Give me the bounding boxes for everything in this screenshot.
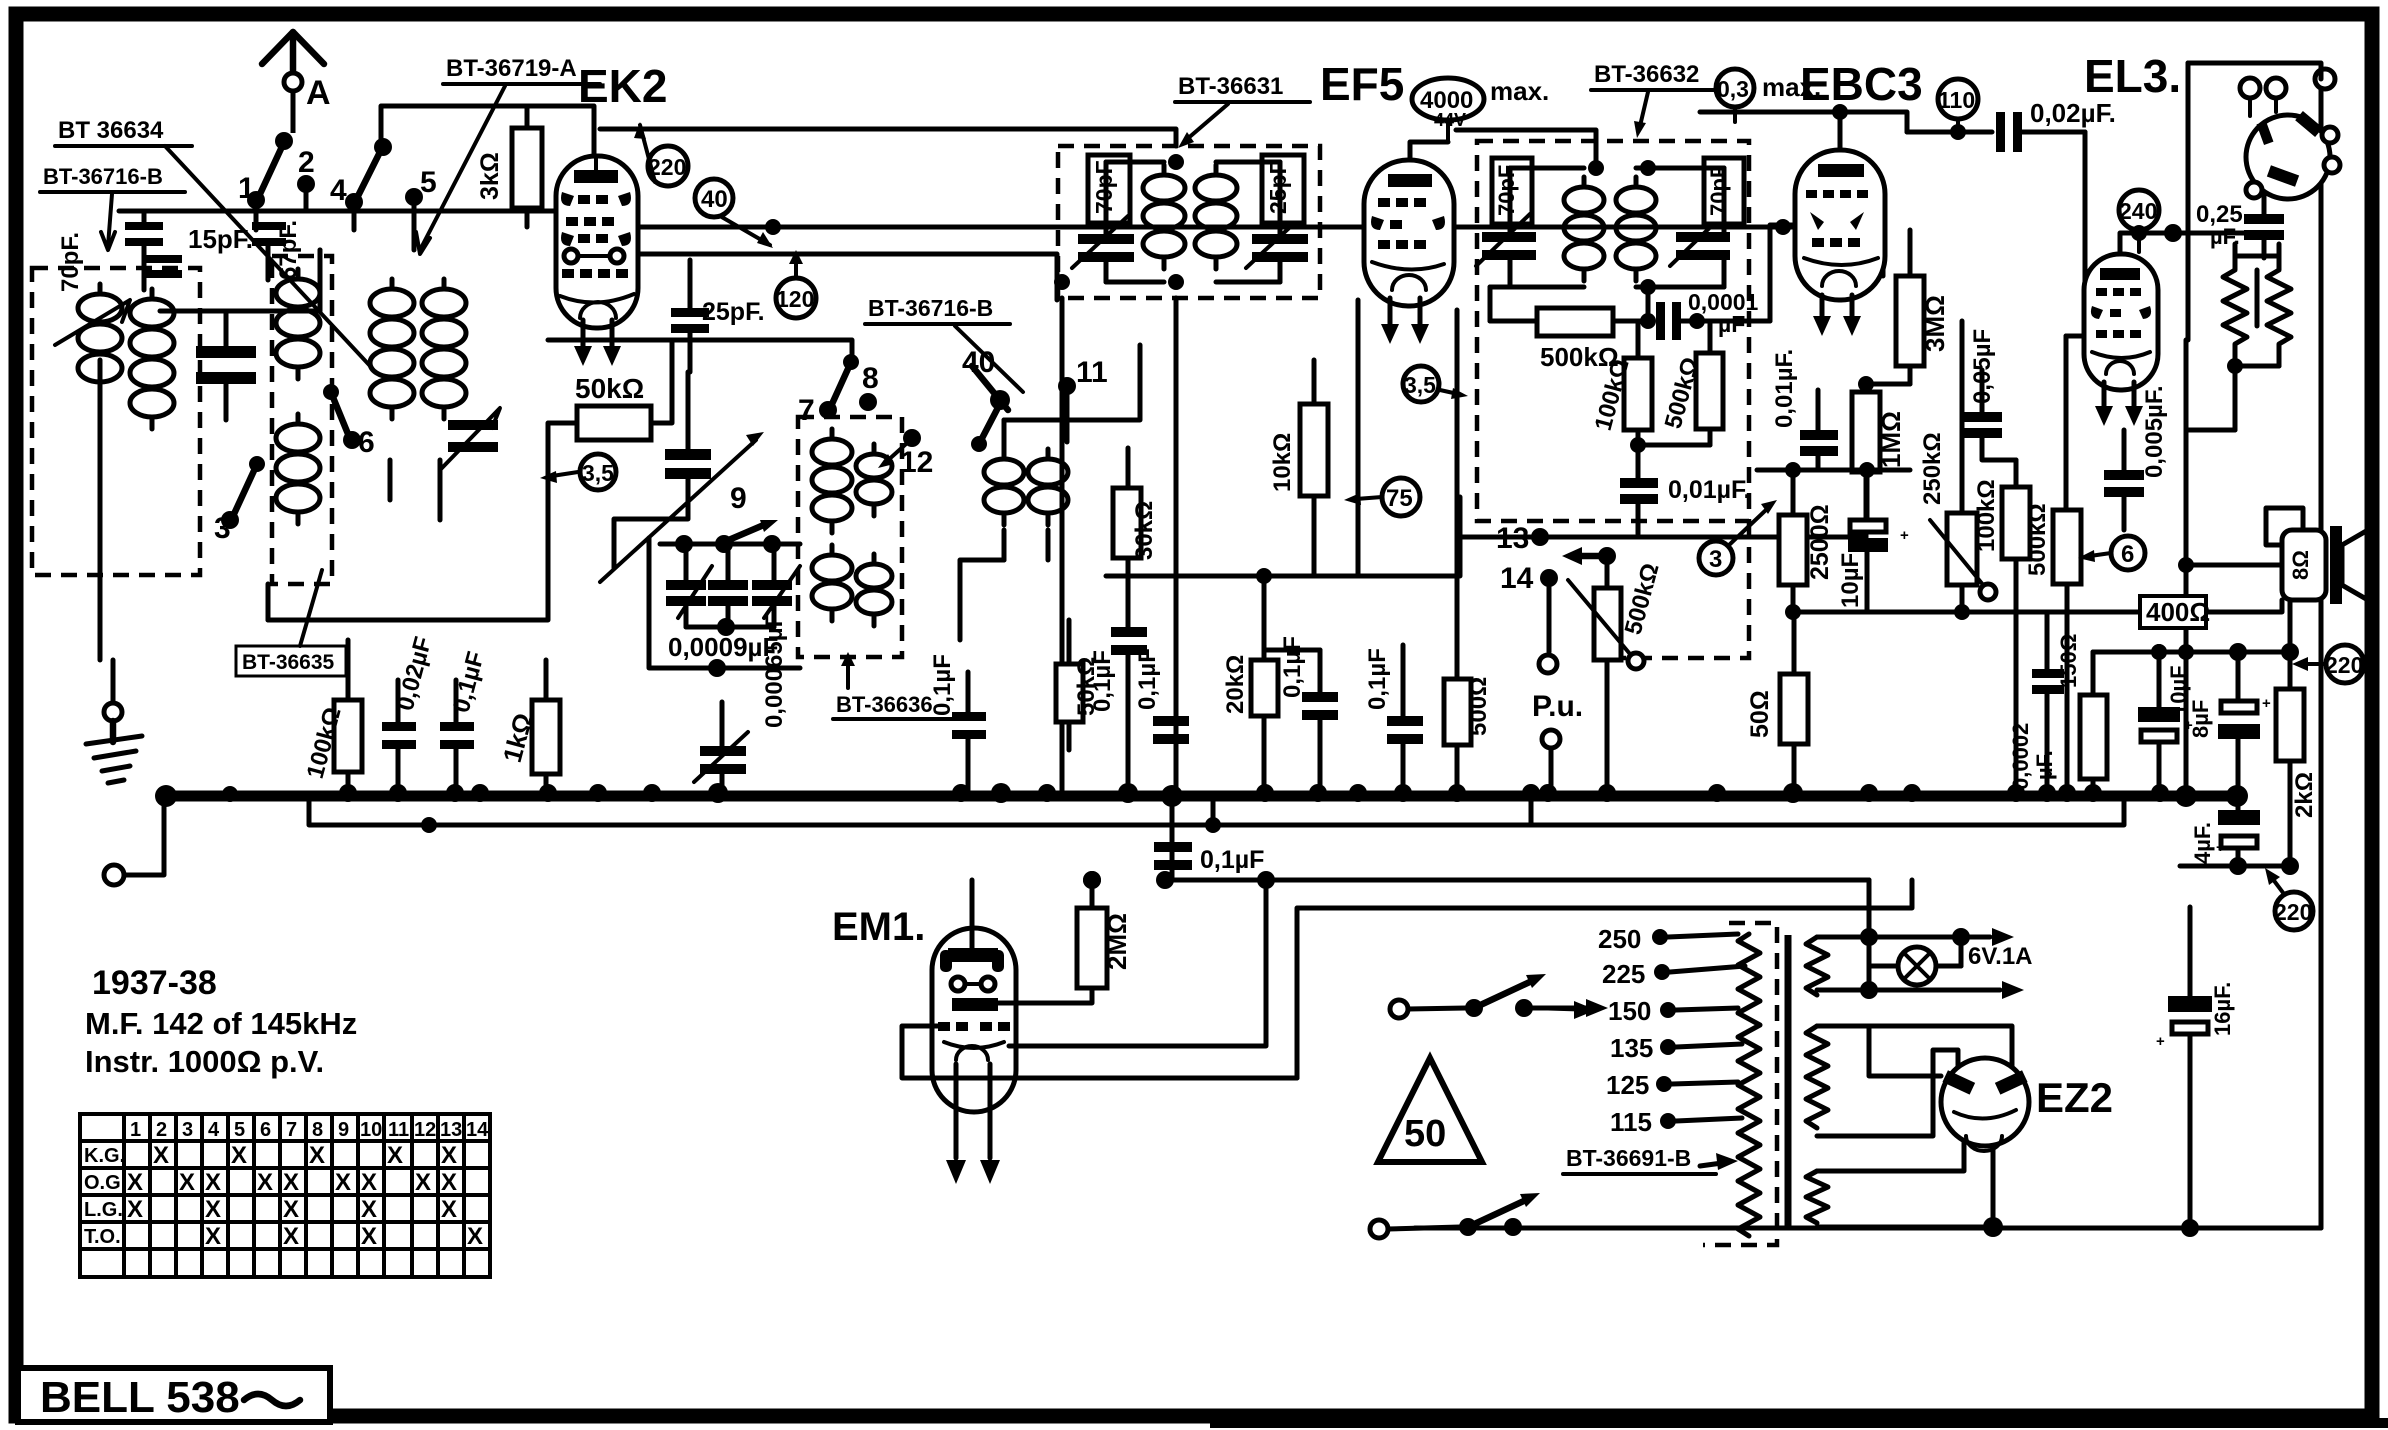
svg-text:EL3.: EL3. (2084, 50, 2181, 102)
mains tap 225 (1602, 959, 1745, 989)
switch contact 6 (323, 384, 375, 459)
trimmer capacitor osc bank 2 (708, 544, 748, 627)
svg-text:15pF.: 15pF. (188, 224, 253, 254)
capacitor 10uF cathode1 (1837, 462, 1909, 612)
wire: feedback line y652 (2093, 650, 2290, 655)
svg-text:2kΩ: 2kΩ (2291, 772, 2318, 818)
transformer core bar (1785, 935, 1792, 1230)
trimmer capacitor IF2 right (1670, 214, 1730, 266)
svg-text:3,5: 3,5 (1404, 372, 1436, 398)
BELL 538 box (18, 1368, 330, 1422)
tube EL3 anode (2100, 268, 2140, 280)
wire: output 400ohm line left (1793, 610, 2138, 615)
wire: S1 bottom heater line (1817, 937, 2024, 999)
svg-text:0,1µF: 0,1µF (1089, 650, 1116, 712)
svg-text:X: X (205, 1169, 221, 1196)
wire: AVC vertical (1211, 796, 1216, 825)
tube EBC3 filament arrows (1813, 295, 1861, 336)
tube EL3 cathode (2092, 352, 2150, 374)
band switch table (80, 1114, 490, 1277)
capacitor 16uF (2156, 907, 2235, 1237)
node A terminal (284, 73, 302, 91)
tube EM1 grid dashes (938, 1022, 1010, 1031)
P.u. terminals (1532, 655, 1583, 790)
svg-text:BT-36631: BT-36631 (1178, 73, 1283, 100)
wire: coil feed links (960, 345, 1140, 640)
dashed box band coil (272, 256, 332, 584)
svg-text:12: 12 (900, 446, 933, 479)
svg-text:0,1µF: 0,1µF (1279, 636, 1306, 698)
svg-text:X: X (153, 1142, 169, 1169)
mains tap 115 (1610, 1107, 1742, 1137)
svg-text:240: 240 (2119, 198, 2157, 224)
svg-text:BELL 538: BELL 538 (40, 1373, 240, 1422)
svg-text:10kΩ: 10kΩ (1269, 433, 1296, 492)
trimmer capacitor 0,00065uF (694, 613, 788, 793)
capacitor 0,1uF E (1364, 645, 1423, 793)
label BT-36636 (833, 652, 962, 719)
potentiometer 500k volume (1568, 560, 1665, 793)
svg-text:3: 3 (1709, 546, 1722, 573)
svg-text:L.G.: L.G. (84, 1199, 123, 1221)
coil OSC2 (856, 444, 892, 516)
antenna symbol (262, 32, 324, 133)
svg-text:20kΩ: 20kΩ (1222, 655, 1249, 714)
svg-text:250: 250 (1598, 924, 1641, 954)
trimmer capacitor IF1 right (1246, 216, 1308, 268)
coil OSC3 (812, 545, 852, 621)
svg-text:75: 75 (1386, 485, 1413, 512)
svg-text:0,005µF.: 0,005µF. (2141, 385, 2168, 478)
ground symbol (86, 721, 142, 783)
coil L2b (276, 414, 320, 524)
transformer secondary S3 (1806, 1171, 1828, 1223)
capacitor 0,1uF left (440, 649, 490, 793)
wire: S1 top to dial lamps (1817, 928, 2014, 946)
svg-text:135: 135 (1610, 1033, 1653, 1063)
resistor 1M (1852, 376, 1910, 537)
svg-text:T.O.: T.O. (84, 1226, 121, 1248)
wire: EM1 loop return line (1297, 880, 1912, 1078)
mains tap 135 (1610, 1033, 1742, 1063)
svg-text:1MΩ: 1MΩ (1876, 411, 1906, 468)
trimmer capacitor IF1 left (1072, 216, 1134, 268)
svg-text:50: 50 (1404, 1113, 1446, 1155)
svg-text:X: X (283, 1196, 299, 1223)
svg-text:BT-36719-A: BT-36719-A (446, 55, 577, 82)
svg-text:220: 220 (2325, 652, 2363, 678)
trimmer capacitor osc pad (440, 408, 500, 470)
wire: HT line below bus (309, 798, 2124, 825)
svg-text:X: X (127, 1196, 143, 1223)
triangle 50 Hz (1378, 1058, 1482, 1162)
dashed box IF1 transformer (1058, 146, 1320, 298)
resistor 20k (1222, 568, 1278, 793)
svg-text:7: 7 (286, 1119, 297, 1141)
svg-text:9: 9 (338, 1119, 349, 1141)
node 7 (798, 354, 859, 427)
wire: EL3 cathode junction (2151, 557, 2194, 660)
svg-text:BT-36691-B: BT-36691-B (1566, 1145, 1691, 1171)
oval 4000 max (1412, 76, 1549, 142)
svg-text:EBC3: EBC3 (1800, 58, 1923, 110)
svg-text:12: 12 (414, 1119, 436, 1141)
svg-text:µF: µF (1718, 311, 1745, 337)
wire: EF5 anode top (1410, 142, 1448, 160)
svg-text:225: 225 (1602, 959, 1645, 989)
trimmer capacitor osc bank 1 (666, 544, 712, 627)
svg-text:40: 40 (701, 186, 728, 213)
svg-text:X: X (335, 1169, 351, 1196)
svg-text:3MΩ: 3MΩ (1920, 295, 1950, 352)
tube EF5 anode (1388, 174, 1432, 187)
tube EK2 cathode (560, 294, 634, 318)
tube EBC3 cathode (1804, 258, 1878, 286)
svg-text:8Ω: 8Ω (2288, 550, 2313, 580)
wire: IF1 primary return (1174, 298, 1179, 796)
svg-text:1: 1 (238, 172, 255, 205)
svg-text:500Ω: 500Ω (1465, 677, 1492, 736)
resistor 1k cathode (497, 660, 560, 793)
wire: trimmer bank frame (649, 538, 800, 677)
svg-text:100kΩ: 100kΩ (1973, 479, 2000, 552)
wire: EM1 heater drop (1869, 1026, 1941, 1076)
svg-text:500kΩ: 500kΩ (2024, 503, 2051, 576)
trimmer frame 70pF IF1 (1088, 155, 1130, 223)
transformer primary winding (1738, 934, 1760, 1236)
svg-text:0,01µF.: 0,01µF. (1771, 349, 1798, 428)
circled 3,5 EK2 (540, 454, 616, 490)
svg-text:6: 6 (2121, 541, 2134, 568)
dashed box oscillator coil BT-36636 (798, 417, 902, 657)
mains tap 125 (1606, 1070, 1738, 1100)
svg-text:X: X (441, 1196, 457, 1223)
svg-text:X: X (441, 1169, 457, 1196)
junction dots EM1 (1083, 871, 1275, 889)
capacitor 0,01uF EBC3 grid (1771, 349, 1838, 470)
wire: EM1 loop outer (1009, 880, 1266, 1046)
svg-text:X: X (283, 1223, 299, 1250)
circled 120 (776, 250, 816, 318)
capacitor 4uF (2190, 799, 2260, 875)
wire: S3 filament to EZ2 cathode (1817, 1142, 1993, 1227)
trimmer capacitor padder (600, 372, 764, 582)
svg-text:EZ2: EZ2 (2036, 1074, 2113, 1121)
svg-text:5: 5 (420, 166, 437, 199)
label BT-36691-B (1563, 1145, 1738, 1174)
table X marks OG (127, 1169, 457, 1196)
tube EM1 cathode (944, 1042, 1004, 1060)
wire: hum network (2186, 244, 2279, 430)
svg-text:X: X (467, 1223, 483, 1250)
svg-text:44V: 44V (1434, 110, 1466, 130)
svg-text:2: 2 (298, 146, 315, 179)
coil IF-feed a (984, 449, 1024, 525)
svg-text:14: 14 (1500, 562, 1534, 595)
svg-text:3: 3 (182, 1119, 193, 1141)
svg-text:125: 125 (1606, 1070, 1649, 1100)
label BT-36719-A (416, 55, 600, 254)
label BT-36632 (1591, 61, 1726, 138)
wire: oscillator line (660, 542, 800, 547)
capacitor 0,1uF below bus (1154, 842, 1264, 874)
capacitor 0,25uF (2196, 190, 2284, 258)
svg-text:+: + (2262, 695, 2271, 712)
svg-text:6: 6 (260, 1119, 271, 1141)
svg-text:7: 7 (798, 394, 815, 427)
svg-text:X: X (205, 1196, 221, 1223)
ground bus (162, 791, 2237, 802)
capacitor 0,005uF EL3 (2104, 385, 2168, 530)
svg-text:50kΩ: 50kΩ (575, 373, 644, 404)
svg-text:8µF: 8µF (2188, 700, 2213, 738)
capacitor 0,05uF (1964, 329, 2016, 460)
wire: lamp feed vertical (1867, 880, 1872, 937)
svg-text:K.G.: K.G. (84, 1145, 125, 1167)
tube EK2 grids (561, 192, 631, 246)
wire: right edge vertical (2319, 79, 2324, 1228)
svg-text:8: 8 (312, 1119, 323, 1141)
resistor 10k (1269, 360, 1328, 576)
circled 6 (2078, 536, 2145, 570)
resistor 50ohm (1746, 612, 1808, 793)
trimmer capacitor IF2 left (1476, 214, 1536, 266)
tube EM1 plate bar (952, 998, 998, 1011)
resistor 100k det (1590, 321, 1652, 445)
tube EM1 target (940, 948, 1004, 972)
coil OSC1 (812, 429, 852, 533)
mains switch bottom (1370, 1193, 1540, 1238)
node 14 (1500, 562, 1558, 652)
wire: chassis terminal to bus (124, 800, 164, 875)
svg-text:9: 9 (730, 482, 747, 515)
trimmer frame 70pF IF2L (1492, 158, 1532, 224)
circled 240 (2119, 190, 2159, 252)
resistor 3M (1896, 230, 1950, 384)
transformer secondary S2 (1806, 1026, 1828, 1128)
svg-text:0,02µF.: 0,02µF. (2030, 98, 2116, 128)
svg-text:150: 150 (1608, 996, 1651, 1026)
svg-text:µF.: µF. (2032, 750, 2057, 780)
tube EZ2 cathode (1954, 1110, 2016, 1151)
resistor 2k (2276, 643, 2318, 875)
resistor 500ohm EF5 (1444, 310, 1492, 793)
tube EF5 grids (1371, 198, 1445, 249)
svg-text:115: 115 (1610, 1107, 1652, 1137)
svg-text:11: 11 (1076, 356, 1108, 389)
wire: S2 HV to EZ2 (1817, 1026, 2012, 1136)
svg-text:6V.1A: 6V.1A (1968, 943, 2033, 970)
chassis terminal (104, 865, 124, 885)
svg-text:50Ω: 50Ω (1746, 690, 1774, 738)
dashed box antenna coil BT-36634 (32, 268, 200, 575)
label BT-36635 (236, 570, 346, 676)
tube EL3 filament arrows (2095, 382, 2143, 426)
tube EM1 envelope (932, 928, 1016, 1112)
wire: connector leads (2188, 63, 2321, 340)
resistor zigzag hum left (2223, 258, 2247, 356)
wire: mains bottom line (1415, 1226, 2321, 1231)
dashed box IF2 detector (1477, 141, 1749, 658)
border bottom-right thick bar (1210, 1418, 2388, 1428)
wire: EK2 osc grid link (430, 470, 548, 620)
svg-text:25pF.: 25pF. (702, 298, 765, 326)
svg-text:0,3: 0,3 (1717, 76, 1749, 102)
svg-text:5: 5 (234, 1119, 245, 1141)
coil IF2 secondary (1616, 177, 1656, 281)
dial lamp (1869, 937, 1961, 985)
svg-text:0,1µF: 0,1µF (1364, 648, 1391, 710)
junction dots misc (421, 219, 1791, 889)
label BT-36631 (1175, 73, 1310, 148)
svg-text:+: + (2216, 839, 2225, 856)
capacitor 0,0001uF (1640, 289, 1770, 340)
wire: EBC3 anode top (1700, 104, 1907, 150)
wire: IF/AVC mid line (1106, 497, 1460, 576)
circled 0,3 max (1716, 69, 1821, 122)
resistor zigzag hum right (2267, 258, 2291, 356)
wire: IF2 secondary to detector (1490, 287, 1648, 321)
svg-text:3: 3 (214, 512, 231, 545)
circled 110 (1938, 79, 1978, 132)
capacitor 0,1uF D (1264, 636, 1338, 793)
tube EBC3 anode (1818, 164, 1864, 177)
circled 220 (634, 122, 688, 186)
tube EF5 envelope (1364, 160, 1454, 306)
svg-text:X: X (415, 1169, 431, 1196)
wire: bus to HT link (1529, 796, 1534, 825)
capacitor 0,01uF det (1620, 437, 1751, 534)
tube EK2 envelope (556, 156, 638, 328)
svg-text:4: 4 (330, 174, 347, 207)
node 11 (1058, 356, 1108, 442)
svg-text:EF5: EF5 (1320, 58, 1404, 110)
svg-text:Instr. 1000Ω p.V.: Instr. 1000Ω p.V. (85, 1044, 324, 1079)
wire: EL3 anode top (2120, 224, 2244, 254)
svg-text:0,01µF.: 0,01µF. (1668, 476, 1751, 504)
coil L1a (78, 284, 122, 394)
switch 40 contact (962, 346, 1010, 452)
tube EK2 filament arrows (574, 320, 621, 366)
svg-text:110: 110 (1938, 87, 1975, 113)
wire: EK2 grid4 line (622, 254, 1057, 300)
svg-text:BT-36636: BT-36636 (836, 692, 933, 717)
wire: coil returns to bus (100, 360, 440, 793)
circled 3,5 EF5 (1403, 366, 1468, 402)
resistor 2500ohm (1779, 462, 1834, 620)
transformer core dashed (1703, 923, 1777, 1245)
wire: left section link (160, 250, 320, 311)
svg-text:X: X (231, 1142, 247, 1169)
tube EBC3 diodes (1806, 190, 1868, 247)
svg-text:4µF.: 4µF. (2190, 822, 2215, 864)
svg-text:3kΩ: 3kΩ (476, 152, 504, 200)
wire: EL3 cathode vertical (2184, 340, 2189, 796)
resistor 500k det2 (1638, 321, 1723, 445)
svg-text:X: X (387, 1142, 403, 1169)
resistor 100k EL3 (1973, 460, 2030, 793)
tube EBC3 envelope (1795, 150, 1885, 300)
svg-text:0,1µF: 0,1µF (1134, 648, 1161, 710)
trimmer capacitor osc bank 3 (752, 544, 800, 627)
svg-text:A: A (306, 74, 331, 112)
capacitor 0,1uF A (1089, 627, 1147, 793)
resistor 3k EK2 anode (476, 106, 542, 227)
svg-text:X: X (441, 1142, 457, 1169)
label BT 36634 (55, 117, 372, 368)
capacitor plate between (2255, 270, 2260, 326)
coil L3b (422, 279, 466, 419)
tube EM1 deflector circles (951, 977, 995, 991)
wire: speaker field line (2186, 563, 2282, 568)
svg-text:16µF.: 16µF. (2210, 982, 2235, 1036)
coil IF1 primary (1143, 165, 1185, 269)
switch contact 2 (297, 146, 315, 193)
bus junction dots (155, 783, 2248, 807)
label BT-36716-B (40, 164, 185, 250)
svg-text:+: + (2156, 1033, 2165, 1050)
capacitor 67pF (252, 220, 302, 280)
switch contact 5 (405, 166, 437, 206)
svg-text:BT-36635: BT-36635 (242, 651, 335, 674)
boxed 400ohm (2140, 596, 2210, 628)
tube EK2 g-circle row (564, 249, 624, 263)
capacitor 25pF (671, 260, 765, 372)
wire: ground feed (111, 660, 116, 703)
svg-text:14: 14 (466, 1119, 489, 1141)
svg-text:X: X (205, 1223, 221, 1250)
svg-text:120: 120 (776, 286, 814, 312)
svg-text:BT 36634: BT 36634 (58, 117, 164, 144)
resistor 2M (998, 880, 1132, 1003)
svg-text:EK2: EK2 (578, 60, 667, 112)
svg-text:150Ω: 150Ω (2056, 634, 2081, 688)
svg-text:P.u.: P.u. (1532, 690, 1583, 723)
svg-text:70pF.: 70pF. (57, 232, 84, 292)
table X marks LG (127, 1196, 457, 1223)
svg-text:EM1.: EM1. (832, 905, 925, 949)
table row labels (84, 1145, 126, 1248)
oscillator switch 9 (675, 482, 781, 553)
svg-text:30kΩ: 30kΩ (1131, 501, 1158, 560)
wire: screen supply line (640, 227, 1883, 276)
svg-text:X: X (361, 1223, 377, 1250)
resistor 50k osc grid (1056, 620, 1100, 750)
wire: EM1 grid cap top (970, 880, 975, 948)
circled 3 (1699, 500, 1777, 575)
wire: EK2 anode to IF1 primary (600, 129, 1176, 146)
wire: EF5 cathode left (1356, 300, 1361, 576)
resistor 150ohm (2056, 634, 2107, 793)
coil L3a (370, 279, 414, 419)
svg-text:220: 220 (2274, 899, 2312, 925)
svg-text:2500Ω: 2500Ω (1806, 504, 1834, 580)
svg-text:10µF: 10µF (1837, 553, 1864, 608)
svg-text:4: 4 (208, 1119, 220, 1141)
wire: IF2 internal (1510, 160, 1724, 295)
volume arrow (1562, 547, 1616, 588)
circled 220 lower (2265, 868, 2313, 930)
wire: trimmer bank bottom (686, 618, 774, 636)
resistor 100k bias (302, 660, 362, 793)
coil IF1 secondary (1195, 165, 1237, 269)
wire: IF1 secondary down (1060, 298, 1065, 796)
svg-text:BT-36716-B: BT-36716-B (868, 295, 993, 321)
resistor 50k EK2 osc anode (548, 340, 672, 470)
capacitor 70pF antenna (57, 211, 163, 292)
svg-text:X: X (257, 1169, 273, 1196)
resistor 500k EL3 grid (2024, 336, 2081, 793)
